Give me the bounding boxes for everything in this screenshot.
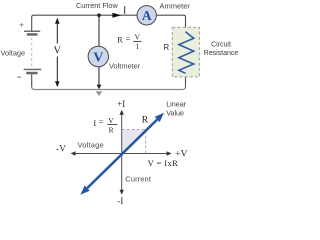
svg-text:V: V <box>54 45 62 56</box>
svg-text:=: = <box>99 117 104 127</box>
svg-text:R: R <box>117 34 123 44</box>
svg-text:=: = <box>126 34 131 44</box>
svg-text:R: R <box>109 125 114 134</box>
svg-text:Value: Value <box>166 109 184 118</box>
svg-text:Current Flow: Current Flow <box>76 1 118 10</box>
svg-text:V: V <box>134 32 140 41</box>
svg-text:I: I <box>93 118 96 128</box>
svg-text:Voltage: Voltage <box>1 49 26 58</box>
svg-text:V = IxR: V = IxR <box>148 158 179 168</box>
svg-text:+I: +I <box>117 100 126 110</box>
svg-text:Resistance: Resistance <box>204 50 239 57</box>
svg-text:R: R <box>163 43 169 52</box>
svg-text:Current: Current <box>125 175 152 184</box>
svg-text:I: I <box>136 42 139 51</box>
svg-text:V: V <box>93 51 103 66</box>
svg-text:Circuit: Circuit <box>211 41 231 48</box>
svg-text:Voltage: Voltage <box>78 141 104 150</box>
svg-text:-I: -I <box>117 197 123 207</box>
svg-text:A: A <box>142 8 152 23</box>
svg-text:Voltmeter: Voltmeter <box>109 62 141 71</box>
svg-text:Ammeter: Ammeter <box>160 2 191 11</box>
svg-text:-V: -V <box>56 145 66 155</box>
svg-text:V: V <box>108 116 114 125</box>
svg-text:Linear: Linear <box>166 99 187 108</box>
svg-text:+: + <box>19 19 24 29</box>
svg-text:I: I <box>123 5 126 16</box>
svg-text:R: R <box>142 116 149 126</box>
